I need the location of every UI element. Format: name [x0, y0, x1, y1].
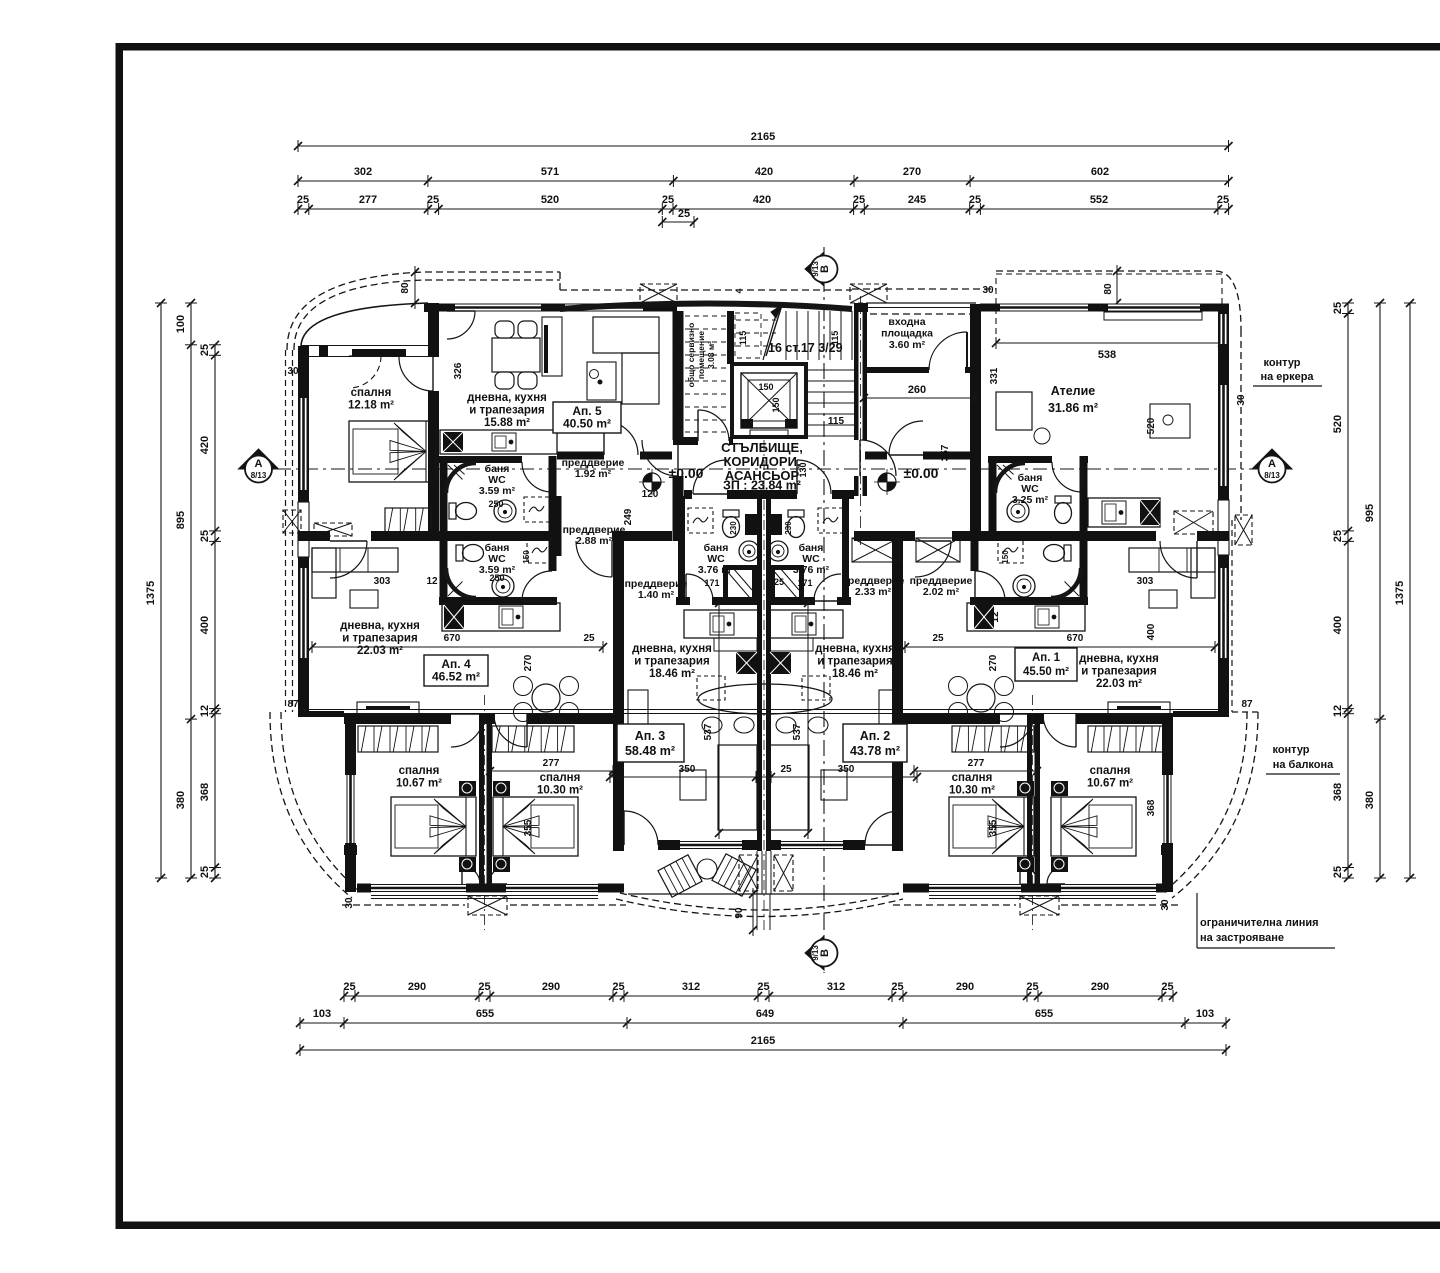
svg-text:25: 25	[199, 530, 211, 542]
svg-text:и трапезария: и трапезария	[469, 405, 544, 417]
svg-text:12: 12	[990, 611, 1001, 623]
svg-text:670: 670	[1067, 633, 1084, 644]
svg-text:303: 303	[374, 576, 391, 587]
svg-text:25: 25	[1332, 302, 1344, 314]
svg-text:25: 25	[1332, 530, 1344, 542]
svg-text:30: 30	[344, 897, 355, 909]
svg-text:спалня: спалня	[399, 765, 440, 777]
svg-text:350: 350	[838, 764, 855, 775]
svg-text:и трапезария: и трапезария	[817, 656, 892, 668]
svg-text:10.30 m²: 10.30 m²	[949, 785, 995, 797]
svg-text:общо сервизно: общо сервизно	[686, 323, 696, 388]
svg-text:3.08 м²: 3.08 м²	[706, 341, 716, 369]
svg-text:спалня: спалня	[1090, 765, 1131, 777]
svg-text:25: 25	[343, 981, 355, 993]
svg-text:Ап. 3: Ап. 3	[635, 729, 666, 743]
svg-text:B: B	[819, 949, 831, 957]
svg-text:9/13: 9/13	[811, 945, 820, 961]
svg-text:площадка: площадка	[881, 328, 933, 340]
svg-text:250: 250	[488, 499, 503, 509]
svg-text:368: 368	[199, 783, 211, 801]
svg-text:100: 100	[175, 315, 187, 333]
svg-text:331: 331	[989, 367, 1000, 384]
svg-text:3.25 m²: 3.25 m²	[1012, 494, 1049, 506]
svg-text:25: 25	[199, 866, 211, 878]
svg-text:538: 538	[1098, 349, 1116, 361]
svg-text:25: 25	[891, 981, 903, 993]
svg-text:25: 25	[932, 633, 944, 644]
svg-text:на еркера: на еркера	[1260, 371, 1314, 383]
svg-text:350: 350	[679, 764, 696, 775]
svg-text:171: 171	[704, 578, 719, 588]
svg-text:A: A	[1268, 458, 1276, 470]
svg-text:12: 12	[426, 576, 438, 587]
svg-text:25: 25	[969, 194, 981, 206]
svg-text:3.76 m²: 3.76 m²	[793, 564, 830, 576]
svg-text:25: 25	[427, 194, 439, 206]
svg-text:спалня: спалня	[952, 772, 993, 784]
svg-text:12: 12	[199, 705, 211, 717]
svg-text:290: 290	[408, 981, 426, 993]
svg-text:контур: контур	[1272, 744, 1309, 756]
svg-text:270: 270	[988, 654, 999, 671]
svg-text:4: 4	[734, 288, 744, 293]
svg-text:2.88 m²: 2.88 m²	[576, 535, 613, 547]
svg-text:25: 25	[297, 194, 309, 206]
svg-text:8/13: 8/13	[1264, 471, 1280, 480]
svg-text:1375: 1375	[145, 581, 157, 605]
svg-text:25: 25	[678, 208, 690, 220]
svg-text:80: 80	[400, 282, 411, 294]
svg-text:277: 277	[543, 758, 560, 769]
svg-text:380: 380	[175, 791, 187, 809]
svg-text:2165: 2165	[751, 1035, 775, 1047]
svg-text:25: 25	[1217, 194, 1229, 206]
svg-text:и трапезария: и трапезария	[634, 656, 709, 668]
svg-text:571: 571	[541, 166, 559, 178]
svg-text:270: 270	[523, 654, 534, 671]
svg-text:400: 400	[199, 616, 211, 634]
svg-text:и трапезария: и трапезария	[1081, 666, 1156, 678]
svg-text:250: 250	[489, 573, 504, 583]
svg-text:270: 270	[903, 166, 921, 178]
svg-text:249: 249	[623, 508, 634, 525]
svg-text:1.40 m²: 1.40 m²	[638, 589, 675, 601]
svg-text:400: 400	[1332, 616, 1344, 634]
svg-text:25: 25	[1332, 866, 1344, 878]
svg-text:46.52 m²: 46.52 m²	[432, 670, 480, 684]
svg-text:и трапезария: и трапезария	[342, 633, 417, 645]
svg-text:277: 277	[968, 758, 985, 769]
svg-text:25: 25	[780, 764, 792, 775]
svg-text:8/13: 8/13	[251, 471, 267, 480]
svg-text:30: 30	[287, 366, 299, 377]
svg-text:25: 25	[199, 344, 211, 356]
svg-text:115: 115	[828, 416, 845, 427]
svg-text:150: 150	[758, 382, 773, 392]
svg-text:40.50 m²: 40.50 m²	[563, 417, 611, 431]
svg-text:90: 90	[734, 907, 745, 919]
svg-text:312: 312	[682, 981, 700, 993]
svg-text:12.18 m²: 12.18 m²	[348, 400, 394, 412]
svg-text:дневна, кухня: дневна, кухня	[1079, 653, 1159, 665]
svg-text:368: 368	[1146, 799, 1157, 816]
svg-text:1375: 1375	[1394, 581, 1406, 605]
svg-text:103: 103	[1196, 1008, 1214, 1020]
svg-text:Ап. 1: Ап. 1	[1032, 652, 1061, 664]
svg-text:25: 25	[1026, 981, 1038, 993]
svg-text:30: 30	[982, 285, 994, 296]
svg-text:230: 230	[729, 521, 738, 535]
svg-text:КОРИДОРИ,: КОРИДОРИ,	[723, 454, 800, 469]
svg-text:400: 400	[1146, 623, 1157, 640]
svg-text:25: 25	[478, 981, 490, 993]
svg-text:995: 995	[1364, 504, 1376, 522]
svg-text:12: 12	[1332, 705, 1344, 717]
svg-text:290: 290	[1091, 981, 1109, 993]
svg-text:25: 25	[612, 981, 624, 993]
svg-text:помещение: помещение	[696, 331, 706, 379]
svg-text:дневна, кухня: дневна, кухня	[467, 392, 547, 404]
svg-text:ограничителна линия: ограничителна линия	[1200, 917, 1319, 929]
svg-text:326: 326	[453, 362, 464, 379]
svg-text:87: 87	[287, 699, 299, 710]
svg-text:30: 30	[1160, 899, 1171, 911]
svg-text:10.30 m²: 10.30 m²	[537, 785, 583, 797]
svg-text:103: 103	[313, 1008, 331, 1020]
svg-text:655: 655	[476, 1008, 494, 1020]
svg-text:18.46 m²: 18.46 m²	[832, 668, 878, 680]
svg-text:312: 312	[827, 981, 845, 993]
svg-text:25: 25	[662, 194, 674, 206]
svg-text:87: 87	[1241, 699, 1253, 710]
svg-text:9/13: 9/13	[811, 261, 820, 277]
svg-text:Ап. 2: Ап. 2	[860, 729, 891, 743]
svg-text:552: 552	[1090, 194, 1108, 206]
svg-text:115: 115	[738, 331, 748, 346]
svg-text:31.86 m²: 31.86 m²	[1048, 401, 1098, 415]
svg-text:дневна, кухня: дневна, кухня	[632, 643, 712, 655]
svg-text:на балкона: на балкона	[1273, 759, 1334, 771]
svg-text:380: 380	[1364, 791, 1376, 809]
svg-text:649: 649	[756, 1008, 774, 1020]
svg-text:10.67 m²: 10.67 m²	[396, 778, 442, 790]
svg-text:290: 290	[542, 981, 560, 993]
svg-text:58.48 m²: 58.48 m²	[625, 744, 675, 758]
svg-text:670: 670	[444, 633, 461, 644]
svg-text:357: 357	[940, 444, 951, 461]
svg-text:±0.00: ±0.00	[669, 465, 704, 481]
svg-text:СТЪЛБИЩЕ,: СТЪЛБИЩЕ,	[721, 440, 803, 455]
svg-text:43.78 m²: 43.78 m²	[850, 744, 900, 758]
svg-text:150: 150	[771, 397, 781, 412]
svg-text:на застрояване: на застрояване	[1200, 932, 1284, 944]
svg-text:ЗП : 23.84 m²: ЗП : 23.84 m²	[723, 479, 801, 493]
svg-text:15.88 m²: 15.88 m²	[484, 417, 530, 429]
svg-text:420: 420	[753, 194, 771, 206]
svg-text:303: 303	[1137, 576, 1154, 587]
svg-text:602: 602	[1091, 166, 1109, 178]
svg-text:520: 520	[1332, 415, 1344, 433]
svg-text:спалня: спалня	[540, 772, 581, 784]
svg-text:30: 30	[1236, 394, 1247, 406]
svg-text:16 ст.17 3/29: 16 ст.17 3/29	[768, 341, 843, 355]
svg-text:10.67 m²: 10.67 m²	[1087, 778, 1133, 790]
svg-text:355: 355	[988, 819, 999, 836]
svg-text:2165: 2165	[751, 131, 775, 143]
svg-text:80: 80	[1103, 283, 1114, 295]
svg-text:368: 368	[1332, 783, 1344, 801]
svg-text:2.33 m²: 2.33 m²	[855, 586, 892, 598]
svg-text:25: 25	[1161, 981, 1173, 993]
svg-text:302: 302	[354, 166, 372, 178]
svg-text:245: 245	[908, 194, 926, 206]
svg-text:655: 655	[1035, 1008, 1053, 1020]
svg-text:520: 520	[541, 194, 559, 206]
svg-text:A: A	[255, 458, 263, 470]
svg-text:895: 895	[175, 511, 187, 529]
svg-text:290: 290	[956, 981, 974, 993]
svg-text:спалня: спалня	[351, 387, 392, 399]
svg-text:537: 537	[792, 723, 803, 740]
svg-text:3.59 m²: 3.59 m²	[479, 485, 516, 497]
svg-text:537: 537	[703, 723, 714, 740]
svg-text:420: 420	[755, 166, 773, 178]
svg-text:355: 355	[523, 819, 534, 836]
svg-text:420: 420	[199, 436, 211, 454]
svg-text:22.03 m²: 22.03 m²	[1096, 678, 1142, 690]
svg-text:дневна, кухня: дневна, кухня	[340, 620, 420, 632]
svg-text:230: 230	[784, 521, 793, 535]
svg-text:3.60 m²: 3.60 m²	[889, 339, 926, 351]
svg-text:1.92 m²: 1.92 m²	[575, 468, 612, 480]
svg-text:25: 25	[583, 633, 595, 644]
svg-text:входна: входна	[888, 316, 925, 328]
svg-text:3.76 m²: 3.76 m²	[698, 564, 735, 576]
svg-text:Ателие: Ателие	[1051, 384, 1096, 398]
svg-text:171: 171	[797, 578, 812, 588]
svg-text:25: 25	[757, 981, 769, 993]
svg-text:25: 25	[774, 577, 784, 587]
svg-text:18.46 m²: 18.46 m²	[649, 668, 695, 680]
svg-text:150: 150	[1001, 550, 1010, 564]
svg-text:2.02 m²: 2.02 m²	[923, 586, 960, 598]
svg-text:B: B	[819, 265, 831, 273]
svg-text:45.50 m²: 45.50 m²	[1023, 666, 1069, 678]
svg-text:520: 520	[1146, 417, 1157, 434]
svg-text:±0.00: ±0.00	[904, 465, 939, 481]
svg-text:150: 150	[522, 550, 531, 564]
svg-text:25: 25	[853, 194, 865, 206]
svg-text:260: 260	[908, 384, 926, 396]
svg-text:дневна, кухня: дневна, кухня	[815, 643, 895, 655]
svg-text:контур: контур	[1263, 357, 1300, 369]
svg-text:277: 277	[359, 194, 377, 206]
